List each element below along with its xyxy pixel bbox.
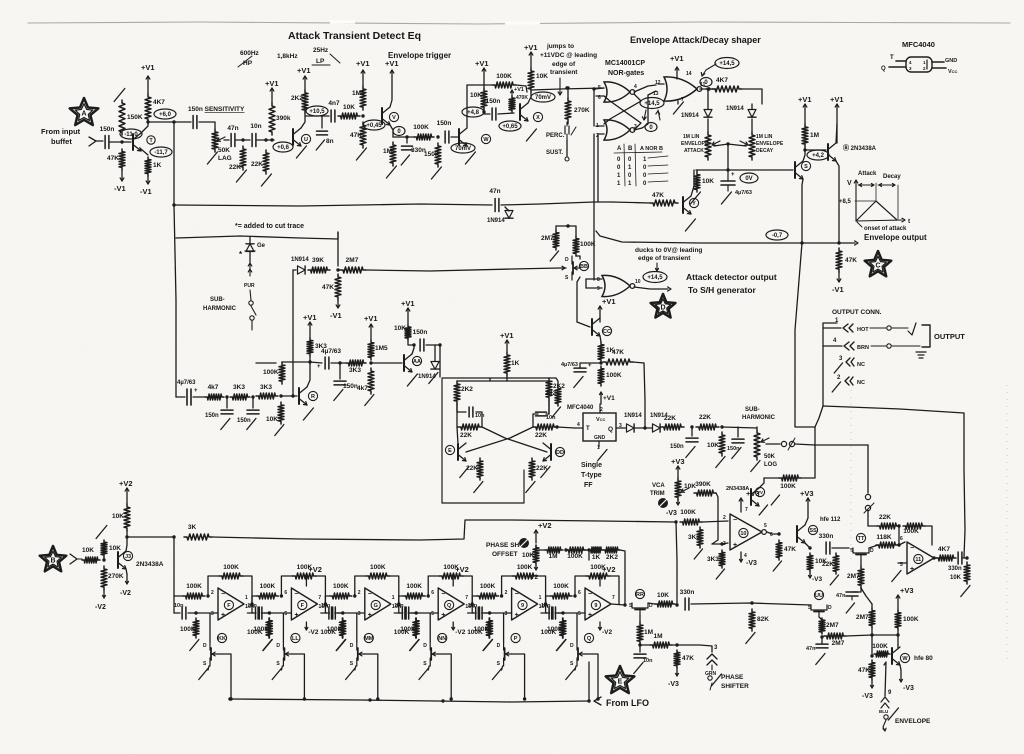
power -V3 vca (666, 500, 680, 517)
label envelope lbl (895, 718, 931, 725)
svg-text:390K: 390K (695, 481, 711, 488)
svg-text:10n: 10n (541, 603, 551, 609)
power +V2 s2 (305, 565, 322, 586)
node bias +10.5 (306, 106, 328, 116)
wire fet gate s3 (365, 654, 378, 699)
node n plus s5 (488, 611, 491, 614)
wire bb src (577, 277, 580, 322)
svg-text:ENVELOPE: ENVELOPE (895, 718, 931, 725)
svg-text:100K: 100K (553, 583, 569, 590)
wire fb loop r s3 (390, 576, 399, 604)
label log lbl2 (764, 462, 777, 468)
capacitor C-150n chain2 (247, 410, 259, 414)
svg-text:+14,5: +14,5 (719, 61, 735, 67)
wire out w3 s2 (337, 612, 342, 614)
svg-text:100K: 100K (327, 626, 343, 633)
transistor Q-MM (350, 633, 374, 667)
wire plus in s3 (321, 612, 327, 614)
node n env out1 (800, 241, 803, 244)
wire fet drop s2 (281, 666, 282, 670)
power +V1 2K2 (297, 66, 311, 90)
ground slash q3 (732, 448, 741, 459)
node bias 0 gate (645, 123, 657, 132)
node node Q4 out (482, 110, 485, 113)
svg-text:10n: 10n (394, 603, 404, 609)
label c10n lbl s3 (321, 603, 331, 609)
svg-text:10K: 10K (343, 104, 355, 111)
wire loop 100K l (764, 477, 779, 479)
wire s6 out long (691, 603, 811, 605)
label pin4 op10 (744, 553, 747, 559)
resistor R-1K cc (598, 342, 615, 362)
label 2n3438a b (136, 561, 164, 568)
power +V1 NOR3 (670, 54, 684, 79)
svg-text:1M: 1M (383, 148, 392, 155)
svg-text:1K: 1K (592, 554, 601, 561)
resistor R-100K in s3 (330, 583, 352, 599)
node n q2 (720, 425, 723, 428)
svg-text:-V2: -V2 (528, 574, 539, 581)
wire plus in s1 (174, 612, 180, 614)
label c10n lbl s2 (247, 603, 257, 609)
resistor R-100K fb s6 (586, 564, 610, 579)
svg-text:2K2: 2K2 (461, 386, 473, 393)
node b node (270, 138, 273, 141)
svg-text:100K: 100K (186, 583, 202, 590)
ground slash out s2 (336, 640, 345, 651)
label jumps2 (540, 52, 597, 59)
wire decay diode wire (751, 104, 753, 109)
label title (288, 30, 421, 42)
resistor R-22K q2 (696, 414, 719, 430)
resistor R-4k7 subh (357, 368, 374, 394)
wire to Q5 (498, 113, 514, 114)
svg-text:G: G (374, 603, 378, 609)
svg-text:+V1: +V1 (303, 313, 317, 322)
wire loop right (815, 406, 965, 557)
wire uu link (897, 630, 899, 645)
svg-text:8n: 8n (326, 138, 334, 145)
svg-text:+V1: +V1 (514, 87, 524, 93)
resistor R-4k7 chain (205, 384, 224, 400)
svg-text:B: B (50, 558, 55, 565)
svg-text:T: T (890, 55, 894, 61)
svg-text:-V3: -V3 (903, 685, 914, 692)
ground slash ffr2 (526, 482, 535, 493)
wire vert x594b (593, 134, 595, 280)
svg-text:11: 11 (915, 557, 921, 563)
label pinB s2 (284, 611, 287, 617)
node base node B (264, 138, 267, 141)
perc switch (546, 122, 576, 161)
wire NOR1 in6 (596, 95, 604, 97)
conn envelope (879, 697, 898, 731)
resistor R-1K pso (589, 547, 603, 561)
label pinA s4 (431, 590, 434, 596)
wire 330n hang (406, 137, 408, 143)
label decay pot lbl3 (756, 148, 774, 154)
power -V2 inb (95, 590, 106, 611)
label mc14001-2 (608, 70, 644, 77)
op-amp U s4 (438, 588, 464, 620)
wire 2k2 top (556, 378, 558, 386)
wire c4u7 cc wire (580, 363, 601, 368)
node n bus s1 (229, 697, 232, 700)
capacitor C-10n out s1 (258, 607, 262, 619)
wire conn pin4 stub (823, 345, 842, 347)
IC MFC4040 mid (575, 404, 622, 451)
resistor R-10K vca (675, 478, 696, 500)
star C (865, 251, 892, 276)
node bias -0.7 (766, 230, 788, 240)
svg-text:-V3: -V3 (666, 510, 677, 517)
wire rr hang (639, 645, 641, 652)
transistor Q5 (520, 103, 543, 122)
resistor R-150K input (119, 100, 143, 135)
svg-text:47K: 47K (858, 667, 870, 674)
wire w4 long (366, 268, 560, 271)
svg-text:D: D (350, 643, 354, 649)
resistor R-100K fb s4 (439, 564, 463, 579)
wire bus y205 (174, 204, 492, 206)
svg-text:22K: 22K (879, 514, 891, 521)
resistor R-100K bb (573, 236, 596, 256)
svg-text:+V1: +V1 (602, 297, 616, 306)
resistor R-100K out s3 (394, 618, 419, 638)
wire bus537 long (212, 520, 676, 540)
label pin9 w (888, 690, 892, 696)
label attack pot lbl (683, 134, 700, 140)
svg-text:ATTACK: ATTACK (684, 148, 704, 154)
power -V2 s6 (599, 622, 613, 636)
wire pso w (536, 545, 545, 550)
wire out w s3 (399, 596, 403, 613)
svg-text:LAG: LAG (218, 155, 232, 162)
det arrow (634, 287, 671, 291)
wire 390K drop (712, 493, 718, 544)
star E (606, 666, 635, 693)
node bias +6.0 (154, 109, 176, 119)
wire pso drop1 (566, 550, 589, 560)
svg-text:2: 2 (358, 590, 361, 596)
svg-text:D: D (570, 643, 574, 649)
resistor R-100K g s2 (253, 618, 272, 638)
node bias 70mV (451, 143, 475, 153)
power +V2 j3 (119, 479, 133, 504)
svg-text:70mV: 70mV (455, 146, 471, 152)
power +V1 1M5 (356, 59, 370, 86)
wire s6 w (648, 603, 655, 604)
ground slash ffr1 (541, 467, 550, 478)
svg-text:LL: LL (292, 636, 299, 642)
svg-text:4K7: 4K7 (938, 546, 950, 553)
svg-text:+V1: +V1 (798, 95, 812, 104)
svg-text:+: + (910, 566, 914, 573)
star B (40, 546, 67, 571)
svg-text:1M LIN: 1M LIN (756, 134, 773, 140)
wire out w s1 (252, 596, 256, 613)
ground slash op11 (892, 571, 901, 582)
ground slash mfc (598, 450, 607, 461)
w4 arrow (562, 266, 565, 270)
svg-text:Single: Single (581, 462, 602, 469)
svg-text:Decay: Decay (883, 174, 901, 180)
ground slash 10K env (690, 192, 700, 204)
capacitor C-4u7 out (321, 348, 341, 369)
svg-text:47K: 47K (612, 349, 624, 356)
svg-text:GND: GND (945, 58, 957, 64)
resistor R-2M7 uu (819, 618, 839, 634)
node env n2 (592, 87, 595, 90)
svg-text:4µ7/63: 4µ7/63 (321, 348, 341, 355)
wire nor3 in13 (642, 91, 656, 128)
svg-text:100K: 100K (606, 372, 622, 379)
wire Q out wire (622, 427, 626, 429)
wire bus537 (127, 536, 174, 538)
svg-text:D: D (565, 257, 569, 263)
node n 872 mid (870, 633, 873, 636)
wire env conn w (884, 662, 886, 696)
wire Q3 emit (390, 125, 393, 137)
node bias 0 (393, 127, 405, 136)
wire fb loop r s5 (537, 576, 546, 604)
label lag-label2 (218, 155, 232, 162)
wire sens to pot (199, 122, 215, 129)
resistor R-100K in10 (680, 509, 702, 525)
svg-text:3K3: 3K3 (349, 367, 361, 374)
svg-text:7: 7 (465, 595, 468, 601)
svg-text:C: C (875, 263, 880, 270)
label r2k2 cc lbl (545, 391, 557, 397)
svg-text:47K: 47K (682, 655, 694, 662)
label 2n3438a vv (726, 486, 749, 492)
svg-text:-V1: -V1 (140, 187, 152, 196)
wire uu gate (819, 617, 822, 620)
resistor R-10K c (470, 88, 487, 110)
svg-text:+10,5: +10,5 (309, 109, 325, 115)
capacitor C-10n out s2 (332, 607, 336, 619)
ground slash 2m7 bb (550, 251, 558, 261)
svg-text:+V2: +V2 (538, 521, 552, 530)
wire plus in2 s2 (261, 612, 291, 614)
svg-text:P: P (514, 636, 518, 642)
svg-text:+0,6: +0,6 (277, 145, 290, 151)
node n lfo3 (441, 699, 444, 702)
node n env out2 (837, 241, 840, 244)
pot wiper decay wiper (740, 141, 748, 145)
svg-text:330n: 330n (819, 533, 834, 540)
wire q2 hang (737, 427, 739, 437)
resistor R-3K bus (184, 524, 212, 540)
label from-input-2 (51, 137, 72, 146)
transistor Q-P (497, 633, 521, 667)
wire cap to base (110, 141, 131, 143)
wire q2 to pot (722, 427, 757, 428)
wire fet drop s5 (502, 666, 503, 670)
graph axes (847, 180, 911, 225)
power +V2 pso (534, 521, 551, 543)
svg-text:−: − (910, 545, 914, 552)
svg-text:CC: CC (603, 329, 611, 335)
svg-text:OUTPUT: OUTPUT (934, 332, 965, 341)
wire vert x440 (439, 345, 441, 377)
wire out w3 s1 (264, 612, 269, 614)
svg-text:2M7: 2M7 (826, 622, 839, 629)
svg-text:SS: SS (809, 528, 817, 534)
node n between diodes (643, 426, 646, 429)
wire fet gate s6 (585, 654, 598, 699)
label ps lbl1 (721, 674, 744, 681)
svg-text:PHASE: PHASE (721, 674, 744, 681)
svg-text:2N3438A: 2N3438A (136, 561, 164, 568)
label c10n out lbl s5 (539, 604, 549, 610)
label pinA s6 (578, 590, 581, 596)
svg-text:2K2: 2K2 (606, 554, 618, 561)
resistor R-100K in s4 (403, 583, 425, 599)
svg-text:V: V (392, 115, 396, 121)
resistor R-3K3 a (688, 527, 703, 548)
resistor R-3K3 chain2 (256, 384, 278, 399)
label pinB s6 (578, 611, 581, 617)
resistor R-270K inb (101, 566, 124, 590)
svg-text:4: 4 (744, 553, 747, 559)
svg-text:150n SENSITIVITY: 150n SENSITIVITY (188, 106, 245, 113)
wire Q3 coll (390, 86, 392, 107)
power -V1 input (114, 170, 126, 193)
wire aa diode wire (434, 345, 436, 361)
resistor R-4K7 env (712, 77, 742, 92)
resistor R-1K ff (504, 352, 520, 376)
node bias +14.5 gate (640, 98, 664, 109)
svg-text:+0,65: +0,65 (502, 124, 518, 130)
svg-text:390k: 390k (276, 115, 291, 122)
svg-text:A: A (81, 111, 86, 118)
ground slash 1M b (386, 166, 396, 178)
svg-text:1N914: 1N914 (681, 113, 699, 119)
diode D-1N914 w4 (291, 257, 309, 274)
star-diode (239, 250, 255, 259)
wire wiper row (766, 443, 780, 445)
wire fb loop r s6 (610, 576, 619, 604)
node bias +4.2 (807, 150, 829, 160)
resistor R-100K g s3 (327, 618, 346, 638)
resistor R-100K g s1 (180, 618, 199, 638)
svg-text:BRN: BRN (857, 345, 869, 351)
transistor Q-TT (850, 533, 874, 560)
node n bus s2 (303, 697, 306, 700)
svg-text:4K7: 4K7 (716, 77, 728, 84)
wire Q4 coll loop (467, 85, 480, 128)
label pin5 op11 (900, 562, 903, 568)
label pin6 op11 (900, 536, 903, 542)
wire tt 47n link (852, 588, 861, 592)
svg-text:118K: 118K (876, 534, 891, 541)
node n fb (897, 524, 900, 527)
pot wiper 50K lag (217, 137, 225, 141)
wire fet drop s4 (428, 666, 429, 670)
svg-text:−: − (441, 591, 445, 598)
gate NOR4 (602, 275, 635, 296)
wire fet feed s5 (503, 613, 505, 642)
node n out s4 (471, 602, 474, 605)
resistor R-10K final (964, 562, 970, 584)
svg-text:10n: 10n (468, 603, 478, 609)
node n 677 bottom (675, 603, 678, 606)
label c150n2 lbl (237, 418, 251, 424)
svg-text:22K: 22K (822, 561, 834, 568)
node n subh out2 (369, 361, 372, 364)
svg-text:-V3: -V3 (668, 681, 679, 688)
label pin2 op10 (723, 515, 726, 521)
wire link s4 (472, 595, 476, 597)
svg-text:+V1: +V1 (603, 395, 615, 402)
power -V2 j3 (120, 574, 131, 597)
wire ff top r (507, 380, 549, 382)
svg-text:+: + (588, 363, 592, 369)
wire ge wire (249, 252, 251, 262)
capacitor C-4n7 (328, 100, 340, 122)
label pinO s6 (612, 595, 615, 601)
svg-text:+V2: +V2 (119, 479, 133, 488)
svg-text:4µ7/63: 4µ7/63 (561, 362, 578, 368)
label c150n q2 lbl (727, 446, 740, 452)
node n lfo2 (368, 698, 371, 701)
svg-text:-11,7: -11,7 (154, 150, 168, 156)
node node x174 (172, 120, 175, 123)
svg-text:−: − (515, 591, 519, 598)
wire Q2N coll (836, 124, 837, 143)
transistor Q-W hfe80 (892, 647, 910, 665)
wire lfo bus (230, 699, 589, 702)
svg-text:100K: 100K (400, 626, 416, 633)
knob pso (519, 538, 529, 548)
label c150n1 lbl (205, 413, 219, 419)
ground slash out s3 (410, 640, 419, 651)
svg-text:10K: 10K (657, 592, 669, 599)
ground slash 150K top (114, 89, 125, 102)
power -V3 op10 (740, 552, 758, 567)
label pinO s1 (245, 595, 248, 601)
power -V2 s4 (452, 622, 466, 636)
svg-text:+V1: +V1 (500, 331, 514, 340)
capacitor C-10n s5 (476, 607, 480, 619)
wire loop 100K r (801, 445, 815, 478)
resistor R-10K inb2 (101, 540, 121, 557)
svg-text:47K: 47K (845, 257, 857, 264)
node n lfo4 (587, 699, 590, 702)
ground slash 8n (316, 140, 324, 150)
svg-text:1M: 1M (548, 553, 557, 560)
wire decay diode btm (751, 119, 753, 132)
transistor Q-Q (570, 633, 594, 667)
wire subh out hang (339, 363, 341, 379)
label c330n out lbl (948, 566, 962, 572)
label hfe80 lbl (914, 655, 933, 662)
updown arrows (642, 110, 660, 120)
label mc14001-1 (605, 60, 645, 67)
wire X cross 2 (466, 427, 533, 452)
transistor Q-UU (808, 590, 832, 617)
wire between diodes (635, 427, 652, 429)
svg-text:47n: 47n (836, 593, 846, 599)
node n hfe emit (808, 546, 811, 549)
node n plus s1 (194, 611, 197, 614)
svg-text:100K: 100K (580, 241, 596, 248)
transistor Q-S (795, 161, 811, 179)
svg-text:3: 3 (505, 611, 508, 617)
svg-text:47K: 47K (322, 284, 334, 291)
svg-text:LP: LP (316, 58, 325, 65)
